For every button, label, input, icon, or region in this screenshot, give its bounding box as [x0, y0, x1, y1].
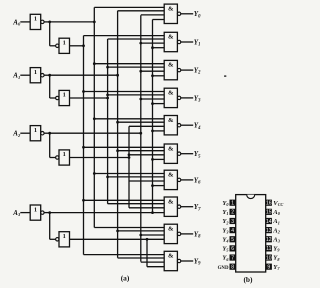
svg-text:14: 14 [266, 219, 272, 225]
svg-text:3: 3 [231, 219, 234, 225]
svg-text:4: 4 [231, 228, 234, 234]
inverter 1 (A1 complement) [30, 68, 41, 83]
wire stub to gate Y0 input 4 [153, 19, 165, 21]
inverter 1 (A3 complement) [30, 205, 41, 220]
wire net A3 row (feeds gate Y8 directly) [70, 238, 165, 240]
pin 8 square [230, 264, 236, 270]
NAND gate Y4 [164, 116, 177, 135]
wire stub to gate Y1 input 2 [108, 38, 165, 40]
wire stub to gate Y6 input 1 [94, 173, 164, 175]
wire stub to gate Y3 input 1 [84, 91, 165, 93]
node A3bar track joins row [151, 211, 154, 214]
node A2bar tap [139, 70, 142, 73]
svg-text:&: & [168, 62, 174, 69]
svg-text:10: 10 [266, 255, 272, 261]
NAND gate Y3 [164, 88, 177, 107]
svg-text:7: 7 [231, 255, 234, 261]
wire stub to gate Y7 input 2 [108, 203, 165, 205]
svg-text:&: & [168, 172, 174, 179]
svg-text:&: & [168, 5, 174, 12]
node A0bar tap [93, 21, 96, 24]
pin 5 square [230, 236, 236, 242]
inverter 1 (A0 complement) [30, 14, 41, 29]
wire net A1 row [70, 97, 108, 99]
wire stub to gate Y6 input 4 [153, 185, 165, 187]
wire stub to gate Y2 input 1 [94, 63, 164, 65]
wire stub to gate Y2 input 3 [141, 70, 164, 72]
node A2bar tap [139, 98, 142, 101]
node A1 tap [106, 97, 109, 100]
node A1 tap [106, 66, 109, 69]
wire vertical track A3 [146, 239, 148, 266]
svg-text:1: 1 [34, 127, 37, 134]
pin 2 square [230, 209, 236, 215]
svg-text:1: 1 [34, 16, 37, 23]
wire vertical track A0 [83, 36, 85, 255]
wire gate Y2 output [181, 69, 193, 71]
wire stub to gate Y9 input 4 [147, 266, 164, 268]
wire vertical track A2 [128, 126, 130, 208]
wire stub to gate Y6 input 3 [129, 180, 164, 182]
wire stub to gate Y0 input 1 [94, 6, 164, 8]
package notch [247, 195, 255, 199]
svg-text:1: 1 [34, 206, 37, 213]
wire input A2 to inverter [20, 132, 30, 134]
node A1bar tap [116, 230, 119, 233]
node A0 tap [82, 90, 85, 93]
pin 6 square [230, 245, 236, 251]
NAND gate Y6 [164, 170, 177, 189]
NAND gate Y9 [164, 251, 177, 270]
pin 4 square [230, 227, 236, 233]
wire stub to gate Y3 input 2 [108, 94, 165, 96]
node A0 tap [82, 199, 85, 202]
node A0bar tap [93, 117, 96, 120]
inverter 2 (A0 true) [56, 44, 59, 47]
wire down to inverter 2 [49, 133, 51, 157]
wire down to inverter 2 [49, 22, 51, 46]
NAND gate Y1 [164, 32, 177, 51]
svg-text:9: 9 [267, 264, 270, 270]
wire stub to gate Y4 input 4 [153, 130, 165, 132]
wire gate Y4 output [181, 124, 193, 126]
svg-text:GND: GND [218, 266, 229, 271]
wire gate Y9 output [181, 260, 193, 262]
node A1bar tap [116, 74, 119, 77]
svg-text:11: 11 [266, 246, 271, 252]
pin 10 square [266, 254, 272, 260]
node A3bar tap [151, 102, 154, 105]
wire gate Y5 output [181, 153, 193, 155]
wire down to inverter 2 [49, 213, 51, 240]
NAND gate Y5 [164, 144, 177, 163]
wire stub to gate Y8 input 3 [141, 234, 164, 236]
node A0bar tap [93, 172, 96, 175]
node A3bar tap [151, 158, 154, 161]
svg-text:1: 1 [63, 233, 66, 240]
node A3 track joins row [146, 238, 149, 241]
wire stub to gate Y4 input 1 [94, 118, 164, 120]
svg-text:&: & [168, 145, 174, 152]
pin 13 square [266, 227, 272, 233]
inverter 2 (A1 true) [56, 96, 59, 99]
NAND gate Y8 [164, 224, 177, 243]
wire gate Y8 output [181, 233, 193, 235]
wire stub to gate Y7 input 3 [129, 207, 164, 209]
svg-text:1: 1 [231, 201, 234, 207]
node junction A0bar [48, 21, 51, 24]
svg-text:&: & [168, 117, 174, 124]
wire stub to gate Y3 input 4 [153, 103, 165, 105]
svg-text:8: 8 [231, 264, 234, 270]
wire gate Y7 output [181, 206, 193, 208]
wire gate Y0 output [181, 13, 193, 15]
svg-text:15: 15 [266, 210, 272, 216]
wire stub to gate Y9 input 1 [84, 254, 165, 256]
node A3bar tap [151, 184, 154, 187]
svg-text:5: 5 [231, 237, 234, 243]
wire vertical track A1bar [117, 11, 119, 258]
svg-text:2: 2 [231, 210, 234, 216]
wire net A1bar row [50, 74, 118, 76]
wire stub to gate Y7 input 1 [84, 199, 165, 201]
pin 7 square [230, 254, 236, 260]
wire net A0 row [70, 45, 84, 47]
wire stub to gate Y1 input 3 [141, 42, 164, 44]
wire input A3 to inverter [20, 212, 30, 214]
wire stub to gate Y6 input 2 [108, 176, 165, 178]
pin 11 square [266, 245, 272, 251]
pin 14 square [266, 218, 272, 224]
svg-text:16: 16 [266, 201, 272, 207]
wire stub to gate Y4 input 3 [129, 125, 164, 127]
wire vertical track A3bar [152, 20, 154, 213]
svg-text:(b): (b) [243, 275, 253, 284]
pin 9 square [266, 264, 272, 270]
inverter 2 (A2 true) [56, 156, 59, 159]
wire vertical track A2bar [140, 15, 142, 261]
node A0 tap [82, 44, 85, 47]
wire stub to gate Y4 input 2 [118, 121, 165, 123]
node A2 tap [128, 156, 131, 159]
pin 16 square [266, 200, 272, 206]
wire stub to gate Y0 input 2 [118, 10, 165, 12]
wire stub to gate Y5 input 1 [84, 146, 165, 148]
wire stub to gate Y2 input 4 [153, 75, 165, 77]
wire down to inverter 2 [49, 75, 51, 98]
wire gate Y3 output [181, 97, 193, 99]
svg-text:&: & [168, 90, 174, 97]
NAND gate Y7 [164, 197, 177, 216]
node A2bar tap [139, 234, 142, 237]
node A1bar tap [116, 149, 119, 152]
NAND gate Y0 [164, 4, 177, 23]
svg-text:1: 1 [63, 40, 66, 47]
wire stub to gate Y1 input 4 [153, 47, 165, 49]
node A2bar tap [139, 132, 142, 135]
node junction A1bar [48, 74, 51, 77]
wire net A2 row [70, 157, 130, 159]
pin 12 square [266, 236, 272, 242]
wire gate Y6 output [181, 179, 193, 181]
svg-text:1: 1 [63, 92, 66, 99]
wire stub to gate Y1 input 1 [84, 35, 165, 37]
wire stub to gate Y5 input 3 [129, 154, 164, 156]
svg-text:13: 13 [266, 228, 272, 234]
node A3bar tap [151, 46, 154, 49]
wire net A0bar row [50, 21, 95, 23]
wire stub to gate Y0 input 3 [141, 14, 164, 16]
node A3bar tap [151, 130, 154, 133]
svg-text:6: 6 [231, 246, 234, 252]
wire stub to gate Y8 input 2 [118, 230, 165, 232]
svg-text:&: & [168, 34, 174, 41]
inverter 1 (A2 complement) [30, 126, 41, 141]
node A1 tap [106, 176, 109, 179]
wire stub to gate Y3 input 3 [141, 98, 164, 100]
svg-text:&: & [168, 253, 174, 260]
scan speck artifact [224, 75, 226, 77]
node A0 tap [82, 146, 85, 149]
wire stub to gate Y8 input 1 [94, 227, 164, 229]
wire stub to gate Y5 input 2 [118, 150, 165, 152]
pin 15 square [266, 209, 272, 215]
pin 1 square [230, 200, 236, 206]
node junction A2bar [48, 132, 51, 135]
svg-text:&: & [168, 226, 174, 233]
node A0bar tap [93, 62, 96, 65]
node A1 tap [106, 94, 109, 97]
svg-text:1: 1 [34, 69, 37, 76]
inverter 2 (A3 true) [56, 238, 59, 241]
wire input A0 to inverter [20, 21, 30, 23]
wire vertical track A0bar [93, 7, 95, 227]
wire inverter1 output to node [44, 212, 50, 214]
wire stub to gate Y2 input 2 [108, 66, 165, 68]
node junction A3bar [48, 211, 51, 214]
wire inverter1 output to node [44, 21, 50, 23]
svg-text:1: 1 [63, 151, 66, 158]
wire input A1 to inverter [20, 74, 30, 76]
wire inverter1 output to node [44, 74, 50, 76]
wire gate Y1 output [181, 41, 193, 43]
IC package DIP-16 body [236, 195, 266, 272]
wire net A2bar row [50, 132, 141, 134]
svg-text:&: & [168, 198, 174, 205]
wire stub to gate Y5 input 4 [153, 158, 165, 160]
node A2bar tap [139, 42, 142, 45]
pin 3 square [230, 218, 236, 224]
node A3bar tap [151, 74, 154, 77]
node A2 tap [128, 153, 131, 156]
wire stub to gate Y9 input 2 [118, 257, 165, 259]
node A1bar tap [116, 121, 119, 124]
wire net A3bar row (feeds gate Y7 directly) [50, 212, 165, 214]
wire vertical track A1 [107, 39, 109, 204]
svg-text:12: 12 [266, 237, 272, 243]
wire stub to gate Y9 input 3 [141, 261, 164, 263]
svg-text:(a): (a) [121, 274, 130, 283]
wire inverter1 output to node [44, 132, 50, 134]
NAND gate Y2 [164, 60, 177, 79]
